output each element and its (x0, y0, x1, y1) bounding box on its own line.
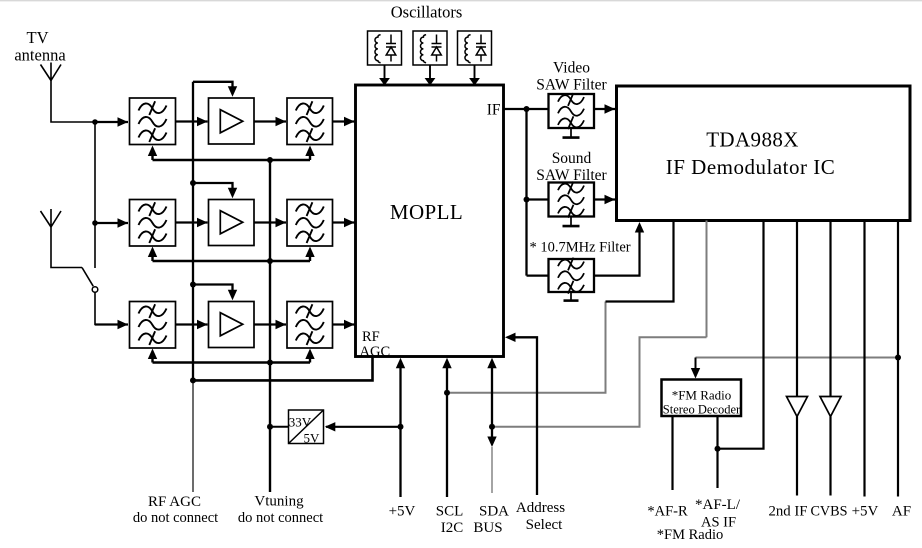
svg-text:*FM Radio: *FM Radio (672, 388, 732, 403)
wire amplifier to filter row2 (254, 221, 286, 223)
wire +5V pin (399, 363, 401, 497)
oscillator OSC2 inductor (420, 35, 426, 63)
10.7MHz filter box (549, 259, 595, 292)
10.7MHz filter ground (570, 292, 572, 300)
node Vtuning row3 (267, 360, 273, 366)
amplifier A1 (209, 98, 255, 144)
svg-text:antenna: antenna (14, 46, 66, 65)
wire filter to MOPLL row3 (333, 323, 355, 325)
oscillator OSC2 varactor diode (432, 35, 442, 62)
oscillator OSC3 inductor (465, 35, 471, 63)
wire IF vertical bus (525, 109, 527, 276)
wire TDA pin AS-IF (718, 221, 764, 449)
svg-text:CVBS: CVBS (810, 504, 847, 520)
antenna 2 symbol (41, 209, 62, 227)
svg-text:2nd IF: 2nd IF (768, 504, 807, 520)
oscillator OSC1 box (368, 31, 402, 65)
node SCL junction (444, 390, 450, 396)
node J1 antenna row1 (92, 119, 98, 125)
node IF sound (524, 197, 530, 203)
svg-text:RF AGC: RF AGC (148, 494, 201, 510)
bandpass filter F2 (287, 98, 333, 145)
wire amp3 gain feed (193, 285, 233, 293)
wire filter to MOPLL row2 (333, 221, 355, 223)
svg-text:do not connect: do not connect (133, 510, 218, 526)
wire sound SAW to TDA (594, 198, 615, 200)
svg-text:Vtuning: Vtuning (254, 494, 304, 510)
svg-text:MOPLL: MOPLL (390, 200, 463, 224)
svg-text:I2C: I2C (441, 520, 464, 536)
oscillator OSC1 inductor (375, 35, 381, 63)
svg-text:Address: Address (516, 500, 565, 516)
wire 2nd IF output (796, 417, 798, 496)
wire AGC feedback row3 (153, 361, 311, 363)
regulator 33V/5V box (289, 410, 324, 444)
wire TDA pin SDA stub (706, 221, 708, 338)
MOPLL IC U1 (356, 85, 504, 357)
wire arrow into bandpass filter F3 (95, 222, 128, 224)
wire AF-L output (716, 416, 718, 488)
bandpass filter F3 (130, 200, 176, 247)
oscillator OSC3 box (458, 31, 492, 65)
wire OSC2 to MOPLL (429, 65, 431, 79)
wire amplifier to filter row3 (254, 323, 286, 325)
switch contact circle (92, 287, 98, 293)
wire Vtuning vertical bus x270 (269, 160, 271, 492)
wire +5V to regulator with arrow (326, 426, 401, 428)
wire filter to MOPLL row1 (333, 120, 355, 122)
wire AGC feedback row2 (153, 260, 311, 262)
svg-text:*AF-L/: *AF-L/ (695, 497, 741, 513)
svg-text:TDA988X: TDA988X (706, 128, 799, 152)
wire SDA pin upper (491, 363, 493, 437)
oscillator OSC1 varactor diode (386, 35, 396, 62)
node J2 antenna row2 (92, 220, 98, 226)
node Vtuning row1 (267, 157, 273, 163)
wire amplifier to filter row1 (254, 120, 286, 122)
node Vtuning row2 (267, 258, 273, 264)
svg-text:+5V: +5V (852, 504, 879, 520)
page top border (0, 0, 922, 2)
TDA988X IF demodulator IC U2 (617, 86, 911, 221)
buffer amplifier 2nd IF (787, 397, 808, 417)
svg-text:do not connect: do not connect (238, 510, 323, 526)
wire SDA net grey: TDA pin 2 stair to SDA junction (492, 337, 707, 427)
svg-text:IF Demodulator IC: IF Demodulator IC (666, 155, 835, 179)
svg-text:RF: RF (362, 329, 380, 345)
sound SAW ground (570, 217, 572, 226)
wire amp2 gain feed (193, 183, 233, 191)
wire SCL net grey: TDA pin to SCL junction (447, 302, 606, 393)
wire RF AGC grey lower segment (192, 380, 194, 492)
svg-text:Sound: Sound (552, 150, 592, 167)
wire AGC vertical bus x193 (192, 82, 194, 381)
oscillator OSC3 varactor diode (476, 35, 486, 62)
wire TDA pin AF (897, 221, 899, 497)
bandpass filter F5 (130, 302, 176, 349)
wire TDA pin 2nd IF (796, 221, 798, 397)
svg-text:AGC: AGC (360, 344, 391, 360)
svg-text:5V: 5V (304, 431, 321, 446)
node SDA junction (489, 424, 495, 430)
wire AGC feedback row1 (153, 159, 311, 161)
wire AF-R output (671, 416, 673, 490)
wire arrow into bandpass filter F1 (95, 121, 128, 123)
video SAW ground (570, 128, 572, 137)
wire SCL pin (446, 363, 448, 497)
wire IF to sound SAW (527, 198, 549, 200)
wire filter to amplifier row3 (176, 323, 208, 325)
svg-text:AF: AF (892, 504, 911, 520)
amplifier A2 (209, 200, 255, 246)
svg-text:BUS: BUS (473, 520, 502, 536)
wire arrow into FM decoder top (695, 358, 697, 372)
svg-text:SDA: SDA (479, 504, 509, 520)
wire video SAW to TDA (594, 108, 615, 110)
svg-text:Stereo Decoder: Stereo Decoder (663, 403, 741, 417)
wire TDA pin +5V (863, 221, 865, 497)
wire IF output (504, 108, 549, 110)
node Vtuning to regulator (267, 424, 273, 430)
svg-text:Video: Video (553, 60, 590, 77)
antenna 1 symbol (41, 63, 62, 81)
wire filter to amplifier row1 (176, 120, 208, 122)
sound SAW filter box (549, 183, 595, 217)
wire filter to amplifier row2 (176, 221, 208, 223)
node IF video (524, 106, 530, 112)
wire IF to 10.7MHz filter (527, 274, 549, 276)
wire RF AGC to MOPLL (193, 358, 373, 381)
oscillator OSC2 box (413, 31, 447, 65)
wire OSC1 to MOPLL (384, 65, 386, 79)
node J4 (190, 282, 196, 288)
wire SDA grey lower segment (491, 447, 493, 493)
svg-text:TV: TV (27, 28, 49, 47)
wire CVBS output (829, 417, 831, 496)
node +5V regulator branch (398, 424, 404, 430)
node J5 AGC branch (190, 377, 196, 383)
svg-text:IF: IF (487, 102, 501, 119)
svg-text:33V: 33V (289, 415, 312, 430)
svg-text:Oscillators: Oscillators (391, 3, 463, 22)
switch blade (82, 268, 93, 287)
video SAW filter box (549, 94, 595, 128)
wire SDA down arrow (487, 437, 496, 448)
wire TDA pin SCL black segment (606, 221, 674, 302)
wire antenna 2 down to switch (51, 227, 82, 268)
bandpass filter F4 (287, 200, 333, 247)
wire antenna bus vertical (94, 122, 96, 268)
svg-text:+5V: +5V (389, 504, 416, 520)
wire switch to row3 input (95, 292, 102, 324)
svg-text:AS IF: AS IF (701, 515, 736, 531)
wire amp1 gain feed (193, 82, 233, 89)
amplifier A3 (209, 302, 255, 348)
wire Address Select to MOPLL (509, 337, 538, 495)
node J3 (190, 180, 196, 186)
svg-text:* 10.7MHz Filter: * 10.7MHz Filter (530, 240, 631, 256)
wire arrow into bandpass filter F5 (95, 323, 128, 325)
node AF to FM decoder (895, 355, 901, 361)
svg-text:*AF-R: *AF-R (647, 504, 688, 520)
wire AF to FM decoder grey horizontal (696, 357, 899, 359)
svg-text:SAW Filter: SAW Filter (536, 77, 607, 94)
bandpass filter F1 (130, 98, 176, 145)
wire 10.7MHz filter to TDA (594, 228, 640, 276)
buffer amplifier CVBS (820, 397, 841, 417)
wire OSC3 to MOPLL (474, 65, 476, 79)
svg-text:SCL: SCL (436, 504, 464, 520)
wire antenna 1 to junction (51, 81, 95, 123)
svg-text:Select: Select (526, 517, 563, 533)
wire TDA pin CVBS (829, 221, 831, 397)
FM radio stereo decoder U3 (662, 380, 742, 417)
bandpass filter F6 (287, 302, 333, 349)
node AF-L junction (715, 446, 721, 452)
wire regulator left (270, 426, 288, 428)
